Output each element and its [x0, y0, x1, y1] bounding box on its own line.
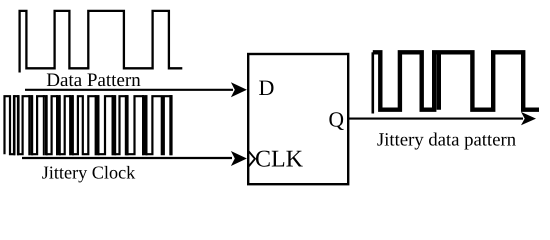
flip-flop box U1 — [248, 54, 348, 184]
arrowhead into D — [231, 82, 247, 97]
wire from Q — [348, 118, 523, 120]
arrowhead of output — [521, 112, 536, 125]
wire to CLK input — [22, 157, 232, 159]
pin label D — [259, 81, 273, 95]
jittery data waveform: first rising edge — [371, 52, 374, 113]
pin label Q — [329, 112, 343, 130]
label Data Pattern — [47, 74, 141, 87]
arrowhead into CLK — [231, 151, 247, 166]
wire to D input — [25, 89, 233, 91]
jittery clock waveform — [5, 96, 172, 154]
jitter doubled edges of clock — [15, 95, 172, 155]
jitter doubled rising edge of data waveform — [437, 53, 441, 110]
data pattern waveform — [20, 11, 183, 73]
pin label CLK — [256, 151, 303, 167]
label Jittery Clock — [42, 166, 135, 183]
jittery data waveform — [373, 52, 539, 109]
clock edge triangle — [249, 151, 255, 166]
label Jittery data pattern — [377, 133, 515, 150]
